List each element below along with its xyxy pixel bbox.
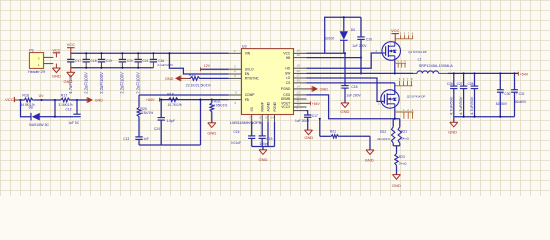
svg-text:D8: D8: [29, 105, 33, 109]
svg-text:HO: HO: [285, 66, 290, 70]
value label: [68, 74, 73, 94]
svg-text:1uF 200V: 1uF 200V: [295, 119, 310, 123]
svg-text:24mΩ: 24mΩ: [401, 136, 410, 140]
wire comp bottom rail: [139, 100, 201, 145]
svg-text:GND: GND: [64, 79, 73, 84]
capacitor C26: [447, 73, 458, 116]
svg-text:82u50V: 82u50V: [515, 100, 527, 104]
Q3 source pads: [395, 109, 414, 119]
P1 pin 1 stub: [44, 63, 54, 65]
svg-text:GND: GND: [320, 88, 329, 92]
junction: [499, 72, 501, 74]
svg-text:15: 15: [297, 78, 301, 82]
svg-text:HB: HB: [286, 56, 291, 60]
wire: [40, 100, 55, 117]
junction: [199, 99, 201, 101]
svg-text:4.7uF/50V: 4.7uF/50V: [469, 96, 474, 115]
ground at input cap bank: [64, 68, 75, 84]
svg-text:C20: C20: [127, 59, 133, 63]
wire output bottom rail: [454, 116, 515, 118]
svg-text:VIN: VIN: [245, 52, 251, 56]
svg-text:12V: 12V: [204, 64, 211, 68]
capacitor C28: [468, 73, 479, 116]
svg-text:C15: C15: [266, 137, 272, 141]
svg-text:2.05K/1%: 2.05K/1%: [213, 103, 227, 107]
U3 part number: [230, 121, 262, 125]
svg-text:COMP: COMP: [245, 93, 255, 97]
svg-text:C17: C17: [75, 59, 81, 63]
resistor R15: [186, 73, 211, 87]
ground at C18: [341, 103, 350, 114]
svg-text:C18: C18: [91, 59, 97, 63]
junction: [152, 52, 154, 54]
capacitor C16 on SS: [231, 122, 256, 147]
wire EN riser: [169, 53, 228, 74]
svg-text:C27: C27: [457, 82, 463, 86]
capacitor C30: [496, 73, 511, 116]
svg-text:+54V: +54V: [146, 98, 155, 102]
junction: [360, 72, 362, 74]
junction: [121, 52, 123, 54]
svg-text:C28: C28: [468, 82, 474, 86]
svg-text:FB: FB: [245, 98, 249, 102]
junction: [343, 16, 345, 18]
wire HB: [307, 57, 362, 59]
capacitor C16: [150, 53, 157, 68]
svg-text:Header 2H: Header 2H: [28, 70, 45, 74]
svg-text:GND: GND: [365, 158, 374, 163]
junction: [100, 52, 102, 54]
svg-text:1uF 200V: 1uF 200V: [346, 93, 361, 97]
resistor R22: [377, 119, 395, 144]
junction: [85, 67, 87, 69]
resistor R23: [395, 153, 408, 167]
pin 4 EN stub: [229, 70, 242, 75]
svg-text:2.2uF/100V: 2.2uF/100V: [84, 72, 89, 94]
junction: [473, 116, 475, 118]
svg-text:14: 14: [297, 84, 301, 88]
wire CS to Q3 drain: [307, 82, 395, 84]
value label: [84, 72, 89, 94]
svg-text:LM5116MH/NOPB: LM5116MH/NOPB: [230, 121, 262, 125]
svg-text:+ C30: + C30: [502, 92, 511, 96]
junction: [360, 57, 362, 59]
value label: [120, 72, 125, 94]
wire Q3 source: [394, 108, 396, 119]
op-amp U3 body: [242, 44, 294, 114]
connector P1: [28, 48, 45, 74]
svg-text:4.7uF/50V: 4.7uF/50V: [458, 96, 463, 115]
wire input bottom rail: [71, 67, 154, 69]
svg-text:GND: GND: [52, 73, 61, 78]
junction: [513, 72, 515, 74]
wire: [138, 118, 140, 137]
capacitor C10 bootstrap: [352, 17, 372, 73]
junction: [137, 52, 139, 54]
Q4 source pads: [395, 60, 406, 67]
GND port at PGND: [307, 86, 329, 92]
svg-text:R23: R23: [399, 155, 405, 159]
wire VCC pin: [307, 52, 346, 54]
wire: [19, 99, 23, 101]
U3 bottom pin stubs: [249, 115, 275, 123]
svg-text:+54V: +54V: [520, 72, 529, 76]
svg-text:VCC: VCC: [391, 28, 400, 33]
svg-text:2.2uF/100V: 2.2uF/100V: [120, 72, 125, 94]
junction: [100, 67, 102, 69]
net label +54V at FB divider: [146, 98, 160, 103]
pin 1 VIN stub: [229, 49, 242, 54]
wire output rail: [439, 72, 519, 74]
svg-text:R21: R21: [401, 130, 407, 134]
svg-text:SW: SW: [285, 72, 291, 76]
svg-text:RT/SYNC: RT/SYNC: [245, 77, 260, 81]
svg-text:RAMP: RAMP: [261, 102, 265, 111]
junction: [168, 52, 170, 54]
svg-text:C13: C13: [123, 137, 129, 141]
resistor R18: [167, 92, 182, 107]
wire LO to Q3 gate: [307, 78, 381, 102]
capacitor C18: [83, 53, 97, 68]
wire CSG sense: [307, 95, 400, 119]
svg-text:3.16K/1%: 3.16K/1%: [58, 103, 72, 107]
ground at R19: [207, 113, 216, 136]
wire UV node: [34, 99, 60, 101]
P1 pin 2 stub: [44, 56, 54, 58]
svg-text:PGND: PGND: [281, 87, 291, 91]
diode D8: [29, 105, 50, 127]
svg-text:24mΩ/1%: 24mΩ/1%: [377, 137, 390, 141]
capacitor C16 labels: [158, 59, 174, 67]
svg-text:2.2uF/100V: 2.2uF/100V: [136, 72, 141, 94]
capacitor C20: [119, 53, 133, 68]
ground at C17: [304, 130, 313, 140]
svg-text:GND: GND: [392, 183, 401, 188]
svg-text:AGND: AGND: [266, 101, 270, 111]
resistor R16: [20, 93, 34, 106]
transistor Q3: [378, 90, 425, 108]
svg-text:BAS16W 5C: BAS16W 5C: [29, 123, 49, 127]
svg-text:1uF 200V: 1uF 200V: [352, 44, 367, 48]
junction: [54, 99, 56, 101]
junction: [85, 52, 87, 54]
capacitor C24: [154, 99, 175, 145]
svg-text:R17: R17: [61, 93, 68, 97]
Q3 drain pads: [395, 77, 413, 86]
wire FB: [160, 99, 229, 101]
wire sense join: [393, 144, 400, 153]
svg-text:18: 18: [297, 53, 301, 57]
junction: [394, 118, 396, 120]
svg-text:VCC: VCC: [52, 48, 60, 52]
svg-text:20: 20: [297, 69, 301, 73]
svg-text:10.7K/1%: 10.7K/1%: [168, 103, 182, 107]
svg-text:+ C31: + C31: [516, 92, 525, 96]
resistor R21: [320, 119, 370, 138]
junction: [463, 72, 465, 74]
svg-text:2.2uF/100V: 2.2uF/100V: [99, 72, 104, 94]
wire bootstrap top rail: [325, 17, 361, 53]
junction: [499, 116, 501, 118]
capacitor C27: [457, 73, 468, 116]
net label 12V: [201, 64, 211, 71]
resistor R17: [58, 93, 72, 106]
U3 right pin stubs: [294, 49, 307, 111]
wire COMP left leg: [138, 95, 140, 107]
inductor L2: [417, 57, 453, 73]
svg-text:1nF: 1nF: [143, 137, 149, 141]
diode D0: [325, 17, 356, 53]
wire SW: [307, 72, 362, 74]
wire: [71, 99, 89, 101]
svg-text:R16: R16: [22, 93, 29, 97]
svg-text:GND: GND: [165, 77, 174, 81]
svg-text:0.1uF/100V: 0.1uF/100V: [158, 63, 174, 67]
junction: [40, 99, 42, 101]
svg-text:Q3 SI7414-DP: Q3 SI7414-DP: [407, 94, 426, 98]
svg-text:B3100: B3100: [325, 36, 335, 40]
junction: [394, 72, 396, 74]
svg-text:L2: L2: [418, 57, 422, 61]
wire VIN top rail: [71, 52, 229, 54]
resistor R19: [210, 99, 228, 113]
svg-text:GND: GND: [304, 135, 313, 140]
svg-text:VCC: VCC: [67, 42, 76, 47]
capacitor C13 1nF: [123, 137, 149, 145]
ground at P1 pin 1: [52, 64, 61, 79]
net label +54V at VOUT: [307, 101, 321, 106]
svg-text:C21: C21: [143, 59, 149, 63]
capacitor C21: [135, 53, 149, 68]
svg-text:113K/1%: 113K/1%: [140, 111, 153, 115]
diode D8 clamp loop wire: [21, 100, 32, 117]
wire Q4 source: [394, 60, 396, 73]
svg-text:22.1K/21.5K/1%: 22.1K/21.5K/1%: [186, 83, 211, 87]
VCC power port above input cap bank: [67, 42, 76, 53]
svg-text:C16: C16: [233, 130, 239, 134]
svg-text:VCC: VCC: [5, 97, 14, 102]
svg-text:D0: D0: [351, 28, 355, 32]
svg-text:LO: LO: [286, 76, 291, 80]
pin 2 UVLO stub: [229, 65, 242, 70]
svg-text:C19: C19: [106, 59, 112, 63]
capacitor C17 on VCCX: [295, 114, 318, 130]
svg-text:14: 14: [271, 116, 275, 120]
svg-text:19: 19: [297, 64, 301, 68]
pin 3 RT stub: [229, 74, 242, 79]
value label: [99, 72, 104, 94]
capacitor C31: [511, 73, 527, 116]
wire COMP: [139, 94, 229, 96]
ground under U3: [259, 147, 268, 163]
U3 bottom pin names: [250, 101, 277, 111]
VCC power port at Q4 drain: [391, 28, 400, 42]
junction: [344, 52, 346, 54]
wire UVLO: [201, 68, 229, 70]
svg-text:1uF 5C: 1uF 5C: [68, 121, 79, 125]
svg-text:100pF: 100pF: [259, 142, 268, 146]
svg-text:VCCX: VCCX: [281, 105, 291, 109]
capacitor C15 on RAMP: [259, 122, 273, 147]
ground at output caps: [448, 117, 458, 135]
capacitor C17: [67, 53, 81, 68]
GND port at R15: [165, 76, 190, 82]
U3 left pin names: [245, 52, 260, 102]
svg-text:4.7uF/50V: 4.7uF/50V: [448, 96, 453, 115]
svg-text:C26: C26: [447, 82, 453, 86]
junction: [473, 72, 475, 74]
wire VCCX: [307, 111, 308, 115]
VCC port left: [5, 97, 20, 102]
wire RT: [201, 77, 229, 79]
svg-text:R21: R21: [330, 129, 336, 133]
svg-text:GND: GND: [259, 157, 268, 162]
ground at R21: [365, 136, 374, 162]
svg-text:UV: UV: [39, 94, 45, 98]
svg-text:GND: GND: [95, 99, 104, 103]
GND port right: [87, 97, 103, 103]
value label: [136, 72, 141, 94]
wire SW rail: [361, 72, 417, 74]
pin 6 COMP stub: [229, 91, 242, 96]
svg-text:GND: GND: [207, 131, 216, 136]
VCC power port at P1 pin 2: [52, 48, 60, 57]
svg-text:82u50V: 82u50V: [496, 102, 508, 106]
svg-text:C24: C24: [154, 127, 160, 131]
svg-text:GND: GND: [341, 109, 350, 114]
U3 right pin names: [281, 52, 291, 110]
svg-text:0.01uF: 0.01uF: [231, 141, 241, 145]
wire Q3 drain: [394, 83, 396, 95]
svg-text:17: 17: [297, 73, 301, 77]
svg-text:C18: C18: [351, 85, 357, 89]
capacitor C12: [55, 100, 81, 125]
ground at R23: [392, 166, 401, 188]
capacitor C18 VCC decoupling: [341, 53, 361, 103]
junction: [463, 116, 465, 118]
svg-text:R22: R22: [380, 130, 386, 134]
svg-text:1.5pF: 1.5pF: [167, 119, 175, 123]
junction: [121, 67, 123, 69]
svg-text:UVLO: UVLO: [245, 67, 254, 71]
junction: [453, 72, 455, 74]
svg-text:U3: U3: [242, 44, 247, 48]
junction: [76, 99, 78, 101]
net label UV: [39, 94, 45, 98]
svg-text:C10: C10: [366, 37, 372, 41]
svg-text:R15: R15: [189, 73, 196, 77]
svg-text:C17: C17: [312, 114, 318, 118]
wire gnd rail under U3: [252, 146, 275, 148]
wire AGND PGND: [268, 122, 275, 147]
svg-text:P1: P1: [29, 48, 34, 53]
svg-text:GND: GND: [448, 130, 457, 135]
svg-text:EN: EN: [245, 72, 250, 76]
junction: [137, 67, 139, 69]
net label +54V output: [518, 72, 528, 77]
capacitor C19: [98, 53, 112, 68]
svg-text:24mΩ: 24mΩ: [399, 161, 408, 165]
Q4 drain pads: [395, 32, 414, 38]
pin 5 FB stub: [229, 100, 242, 105]
svg-text:C12: C12: [66, 108, 72, 112]
resistor R20: [137, 107, 153, 118]
svg-text:PGND: PGND: [273, 101, 277, 111]
transistor Q4: [376, 42, 427, 61]
junction: [319, 118, 321, 120]
svg-text:Q4 SI7414-DP: Q4 SI7414-DP: [408, 50, 427, 54]
svg-text:+54V: +54V: [312, 102, 321, 106]
wire HO to Q4 gate: [307, 53, 382, 68]
svg-text:SRP1245A-100MLA: SRP1245A-100MLA: [419, 64, 454, 68]
junction: [54, 116, 56, 118]
resistor R21b: [398, 119, 410, 144]
